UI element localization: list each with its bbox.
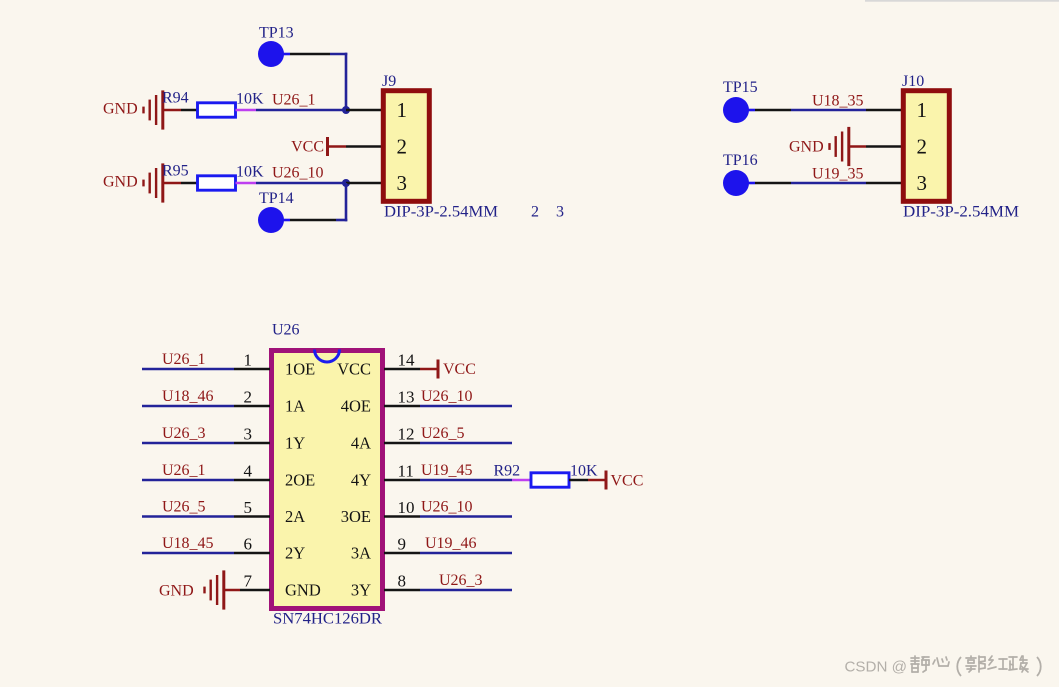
wire R92 to VCC xyxy=(569,479,588,482)
svg-text:U26_1: U26_1 xyxy=(162,351,206,368)
U26 orientation notch xyxy=(315,350,340,363)
wire net U26_10 xyxy=(256,182,346,185)
U26 pin 1 wire xyxy=(234,368,270,371)
wire TP13 to node xyxy=(330,53,347,56)
U26 pin 13 wire xyxy=(384,405,420,408)
svg-text:2A: 2A xyxy=(285,507,305,526)
wire net U18_46 (U26 pin 2) xyxy=(142,405,234,408)
svg-text:U19_35: U19_35 xyxy=(812,166,864,183)
svg-text:3: 3 xyxy=(244,425,253,444)
svg-text:3: 3 xyxy=(917,171,928,195)
svg-text:U26_5: U26_5 xyxy=(421,425,465,442)
svg-text:U18_35: U18_35 xyxy=(812,93,864,110)
svg-text:DIP-3P-2.54MM: DIP-3P-2.54MM xyxy=(903,204,1019,221)
svg-text:CSDN @: CSDN @ xyxy=(845,659,908,676)
svg-text:J9: J9 xyxy=(382,73,396,90)
svg-text:TP13: TP13 xyxy=(259,25,294,42)
svg-text:9: 9 xyxy=(398,535,407,554)
svg-text:VCC: VCC xyxy=(611,473,644,490)
svg-text:1OE: 1OE xyxy=(285,360,315,379)
watermark glyph 心 xyxy=(933,657,949,666)
wire GND to R95 xyxy=(162,182,182,185)
wire net U26_1 (U26 pin 4) xyxy=(142,479,234,482)
svg-text:U26_1: U26_1 xyxy=(162,462,206,479)
power symbol VCC (R92) xyxy=(605,471,608,490)
svg-text:U19_45: U19_45 xyxy=(421,462,473,479)
wire to J9 pin 1 xyxy=(346,109,383,112)
svg-text:8: 8 xyxy=(398,572,407,591)
junction node U26_10 xyxy=(342,179,350,187)
TP13 pin wire xyxy=(282,53,290,56)
wire net U26_1 xyxy=(256,109,346,112)
svg-text:U18_45: U18_45 xyxy=(162,535,214,552)
wire net U19_45 xyxy=(420,479,512,482)
svg-text:GND: GND xyxy=(285,581,321,600)
watermark glyph 政 xyxy=(1009,656,1028,672)
svg-text:1: 1 xyxy=(917,98,928,122)
watermark glyph （ xyxy=(957,657,961,676)
svg-text:2: 2 xyxy=(397,135,408,159)
svg-text:TP14: TP14 xyxy=(259,190,294,207)
connector J9 xyxy=(383,91,429,202)
svg-text:1A: 1A xyxy=(285,397,305,416)
svg-text:3OE: 3OE xyxy=(341,507,371,526)
wire net U26_3 (U26 pin 8) xyxy=(420,589,512,592)
wire U26 pin 14 to VCC xyxy=(420,368,437,371)
TP15 pin wire xyxy=(747,109,755,112)
U26 pin 10 wire xyxy=(384,515,420,518)
svg-text:VCC: VCC xyxy=(337,360,371,379)
TP16 pin wire xyxy=(747,182,755,185)
svg-text:R95: R95 xyxy=(162,163,189,180)
svg-text:SN74HC126DR: SN74HC126DR xyxy=(273,611,382,628)
svg-text:GND: GND xyxy=(789,139,824,156)
svg-text:11: 11 xyxy=(398,462,414,481)
watermark glyph 郭 xyxy=(966,656,985,672)
wire GND to J10 pin 2 xyxy=(848,145,867,148)
wire net U26_3 (U26 pin 3) xyxy=(142,442,234,445)
top-right gray strip xyxy=(865,0,1059,2)
svg-text:10: 10 xyxy=(398,498,415,517)
svg-text:3Y: 3Y xyxy=(351,581,371,600)
U26 pin 2 wire xyxy=(234,405,270,408)
wire net U18_45 (U26 pin 6) xyxy=(142,552,234,555)
U26 pin 4 wire xyxy=(234,479,270,482)
resistor R94 xyxy=(198,103,236,117)
U26 pin 14 wire xyxy=(384,368,420,371)
svg-text:U26_3: U26_3 xyxy=(439,572,483,589)
svg-text:4Y: 4Y xyxy=(351,471,371,490)
svg-text:U26_1: U26_1 xyxy=(272,92,316,109)
svg-text:GND: GND xyxy=(103,174,138,191)
svg-text:4A: 4A xyxy=(351,434,371,453)
wire R94 pin (magenta) xyxy=(236,109,257,112)
svg-text:VCC: VCC xyxy=(443,361,476,378)
U26 pin 9 wire xyxy=(384,552,420,555)
svg-text:U26_5: U26_5 xyxy=(162,499,206,516)
connector J10 xyxy=(903,91,949,202)
svg-text:VCC: VCC xyxy=(291,139,324,156)
svg-text:2OE: 2OE xyxy=(285,471,315,490)
svg-text:4: 4 xyxy=(244,462,253,481)
wire net U19_35 xyxy=(791,182,866,185)
U26 pin 12 wire xyxy=(384,442,420,445)
svg-text:7: 7 xyxy=(244,572,253,591)
test point TP16 xyxy=(723,170,749,196)
wire net U26_10 (U26 pin 13) xyxy=(420,405,512,408)
svg-text:GND: GND xyxy=(159,583,194,600)
svg-text:U26: U26 xyxy=(272,322,300,339)
svg-text:1: 1 xyxy=(244,351,253,370)
wire net U26_5 (U26 pin 12) xyxy=(420,442,512,445)
svg-text:J10: J10 xyxy=(902,73,924,90)
svg-text:13: 13 xyxy=(398,388,415,407)
watermark glyph ） xyxy=(1037,657,1041,676)
test point TP13 xyxy=(258,41,284,67)
U26 pin 6 wire xyxy=(234,552,270,555)
test point TP14 xyxy=(258,207,284,233)
svg-text:3: 3 xyxy=(556,204,564,221)
TP14 pin wire xyxy=(282,219,290,222)
watermark glyph 静 xyxy=(911,656,929,672)
svg-text:3A: 3A xyxy=(351,544,371,563)
resistor R95 xyxy=(198,176,236,190)
svg-text:TP15: TP15 xyxy=(723,79,758,96)
power symbol VCC (U26 pin 14) xyxy=(437,360,440,379)
resistor R92 xyxy=(531,473,569,487)
svg-text:GND: GND xyxy=(103,101,138,118)
svg-text:10K: 10K xyxy=(236,164,264,181)
svg-text:U19_46: U19_46 xyxy=(425,535,477,552)
svg-text:1: 1 xyxy=(397,98,408,122)
wire to J9 pin 3 xyxy=(346,182,383,185)
op-amp/buffer U26 body xyxy=(272,351,383,609)
svg-text:10K: 10K xyxy=(236,91,264,108)
wire GND to U26 pin 7 xyxy=(223,589,241,592)
wire R95 pin (magenta) xyxy=(236,182,257,185)
svg-text:5: 5 xyxy=(244,498,253,517)
svg-text:U26_3: U26_3 xyxy=(162,425,206,442)
svg-text:4OE: 4OE xyxy=(341,397,371,416)
svg-text:U26_10: U26_10 xyxy=(272,165,324,182)
svg-text:1Y: 1Y xyxy=(285,434,305,453)
wire net U19_46 (U26 pin 9) xyxy=(420,552,512,555)
wire to J10 pin 3 xyxy=(866,182,903,185)
svg-text:2: 2 xyxy=(531,204,539,221)
wire net U26_5 (U26 pin 5) xyxy=(142,515,234,518)
wire to J10 pin 1 xyxy=(866,109,903,112)
svg-text:10K: 10K xyxy=(570,463,598,480)
test point TP15 xyxy=(723,97,749,123)
U26 pin 11 wire xyxy=(384,479,420,482)
wire R92 pin (magenta) xyxy=(512,479,532,482)
svg-text:U18_46: U18_46 xyxy=(162,388,214,405)
U26 pin 7 wire xyxy=(240,589,270,592)
junction node U26_1 xyxy=(342,106,350,114)
U26 pin 3 wire xyxy=(234,442,270,445)
wire net U26_10 (U26 pin 10) xyxy=(420,515,512,518)
svg-text:R92: R92 xyxy=(494,463,521,480)
U26 pin 5 wire xyxy=(234,515,270,518)
svg-text:2: 2 xyxy=(244,388,253,407)
U26 pin 8 wire xyxy=(384,589,420,592)
svg-text:TP16: TP16 xyxy=(723,152,758,169)
svg-text:6: 6 xyxy=(244,535,253,554)
svg-text:2: 2 xyxy=(917,135,928,159)
wire net U26_1 (U26 pin 1) xyxy=(142,368,234,371)
wire net U18_35 xyxy=(791,109,866,112)
svg-text:DIP-3P-2.54MM: DIP-3P-2.54MM xyxy=(384,204,498,221)
wire GND to R94 xyxy=(162,109,182,112)
wire TP14 to node xyxy=(336,219,347,222)
svg-text:3: 3 xyxy=(397,171,408,195)
svg-text:14: 14 xyxy=(398,351,416,370)
wire VCC to J9 pin 2 xyxy=(329,145,346,148)
svg-text:U26_10: U26_10 xyxy=(421,388,473,405)
svg-text:12: 12 xyxy=(398,425,415,444)
watermark glyph 红 xyxy=(988,656,1007,669)
svg-text:U26_10: U26_10 xyxy=(421,499,473,516)
svg-text:R94: R94 xyxy=(162,90,189,107)
svg-text:2Y: 2Y xyxy=(285,544,305,563)
